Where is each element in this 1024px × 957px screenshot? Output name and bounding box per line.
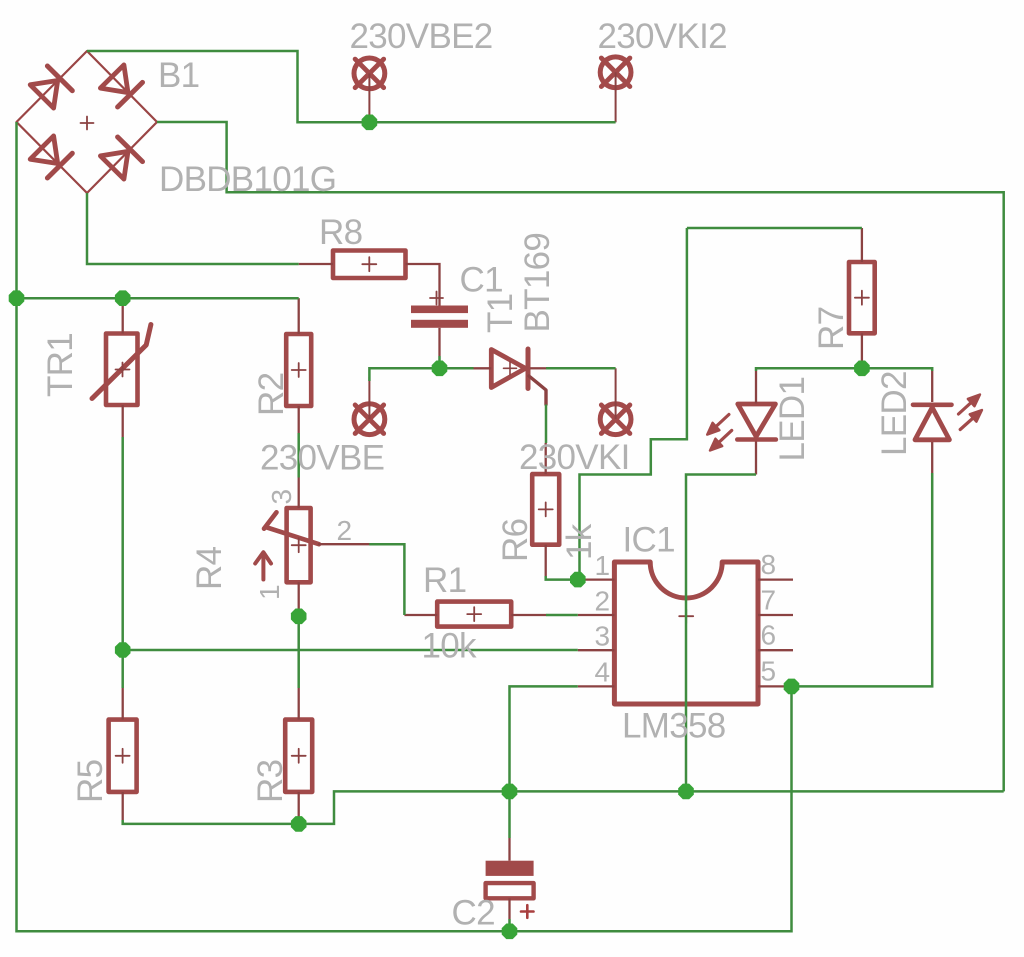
pad 230VKI — [600, 404, 631, 435]
resistor R5 — [109, 720, 137, 792]
svg-text:5: 5 — [761, 656, 777, 687]
wire R7 bottom lead — [861, 333, 863, 368]
svg-text:3: 3 — [595, 621, 611, 652]
wire R8 right lead to C1 — [406, 264, 440, 306]
node junction R3 bottom — [291, 816, 307, 832]
wire R5/R3 bottoms to right rail — [123, 791, 1004, 824]
wire IC pin1 lead — [578, 578, 615, 580]
wire bridge-bottom to R8 — [87, 193, 299, 264]
wire staircase R7 net to IC pin1 — [580, 228, 687, 580]
resistor R1 — [437, 602, 511, 627]
LED2 — [913, 395, 982, 440]
wire IC pin8 lead — [758, 578, 793, 580]
node junction C2 top — [502, 784, 518, 800]
wire pad 230VBE lead — [368, 377, 370, 419]
wire T1 gate to R6 top — [545, 405, 548, 444]
svg-text:B1: B1 — [158, 56, 199, 95]
wire LED2 anode lead — [931, 442, 933, 473]
wire R3 top lead — [298, 688, 300, 720]
svg-text:R5: R5 — [71, 760, 110, 803]
wire bridge-right to right edge down — [157, 122, 1004, 791]
node junction TR1-R5-pin3 — [115, 642, 131, 658]
bridge diamond outline — [17, 51, 158, 193]
wire C1 bottom to T1 net — [438, 356, 441, 368]
node junction C1 bottom — [432, 361, 448, 377]
svg-text:1: 1 — [595, 550, 611, 581]
svg-text:3: 3 — [266, 489, 297, 505]
wire TR1 bottom down to R5 — [121, 437, 124, 688]
resistor R6 — [532, 474, 559, 545]
wire R7 top horizontal — [687, 227, 862, 230]
wire IC pin4 lead — [578, 685, 615, 687]
node junction C2 bottom — [502, 924, 518, 940]
resistor R8 — [333, 251, 406, 279]
wire pad 230VKI lead — [615, 368, 617, 419]
origin cross of B1 — [81, 117, 94, 130]
diode D-TR of B1 — [118, 82, 143, 107]
wire R2 top lead — [298, 298, 300, 334]
wire IC pin4 down to C2 top — [510, 686, 578, 838]
resistor R7 — [849, 262, 875, 333]
svg-text:R7: R7 — [812, 307, 851, 350]
wire TR1 bottom lead — [122, 405, 124, 437]
svg-text:T1: T1 — [481, 294, 520, 333]
svg-text:R1: R1 — [423, 561, 466, 600]
wire TR1 top lead — [122, 298, 124, 333]
op-amp IC1 LM358 body — [614, 562, 758, 704]
wire bridge-left down, bottom rail, up to pin5 junction — [17, 122, 792, 931]
thyristor T1 — [491, 349, 546, 405]
wire pad 230VBE2 lead — [368, 73, 370, 122]
wire C2 top lead — [508, 838, 510, 861]
svg-text:R6: R6 — [496, 519, 535, 562]
wire R8 left lead — [299, 263, 333, 265]
node junction IC pin5 — [784, 679, 800, 695]
node junction IC pin1 — [570, 572, 586, 588]
node junction R4 pin1 — [291, 609, 307, 625]
wire IC pin3 lead — [578, 649, 615, 651]
svg-text:2: 2 — [595, 586, 611, 617]
wire LED2 bottom to IC pin5 — [792, 473, 933, 686]
wire R4 pin1 lead — [298, 582, 300, 612]
wire R4 pin3 lead — [298, 478, 300, 509]
svg-text:LM358: LM358 — [622, 707, 726, 746]
wire T1 cathode to 230VKI elbow — [546, 367, 616, 370]
svg-text:230VKI: 230VKI — [519, 438, 630, 477]
node junction 230VBE2-wire — [362, 115, 378, 131]
diode D-TL of B1 — [47, 66, 72, 91]
svg-text:IC1: IC1 — [623, 521, 675, 560]
wire IC pin5 lead — [758, 685, 792, 687]
wire R1 left lead — [404, 614, 437, 616]
wire R2 bottom to R4 top — [297, 433, 300, 478]
svg-text:R3: R3 — [251, 760, 290, 803]
wire R1 right to IC pin2 — [546, 614, 578, 617]
wire LED1 anode lead — [755, 371, 757, 404]
wire 230VBE elbow to T1 anode — [369, 368, 473, 381]
wire R6 bottom to IC pin1 — [546, 576, 578, 580]
wire LED anodes horizontal — [756, 368, 932, 371]
pad 230VBE — [354, 404, 385, 435]
wire R5 bottom lead — [122, 792, 124, 820]
svg-text:LED1: LED1 — [773, 377, 812, 462]
wire C2 bottom to bottom rail — [508, 919, 511, 931]
potentiometer R4 — [255, 508, 369, 582]
wire C1 bottom lead — [438, 328, 440, 356]
svg-text:10k: 10k — [422, 627, 478, 666]
svg-text:R8: R8 — [319, 213, 362, 252]
wire R2 bottom lead — [298, 406, 300, 433]
wire R6 top lead — [545, 443, 547, 474]
thermistor TR1 — [92, 325, 151, 406]
node junction left-rail/R2-wire — [9, 290, 25, 306]
svg-text:R2: R2 — [252, 373, 291, 416]
svg-text:2: 2 — [337, 515, 353, 546]
wire R4 bottom to R3 top — [297, 612, 300, 688]
wire R3 bottom lead — [298, 792, 300, 820]
wire LED2 cathode lead — [931, 371, 933, 402]
wire T1 cathode lead — [530, 367, 546, 369]
resistor R3 — [285, 720, 312, 792]
svg-text:230VKI2: 230VKI2 — [598, 17, 727, 56]
node junction R7 bottom — [854, 361, 870, 377]
svg-text:230VBE2: 230VBE2 — [350, 17, 493, 56]
svg-text:TR1: TR1 — [41, 333, 80, 397]
wire pad 230VKI2 lead — [615, 72, 617, 122]
svg-text:230VBE: 230VBE — [260, 439, 384, 478]
node junction LED1-net bottom — [678, 784, 694, 800]
svg-text:6: 6 — [761, 620, 777, 651]
wire IC pin6 lead — [758, 649, 793, 651]
wire TR1/R5 node to IC pin3 — [123, 649, 578, 652]
bridge rectifier B1 — [17, 51, 158, 193]
svg-text:DBDB101G: DBDB101G — [159, 160, 336, 199]
wire R1 right lead — [511, 614, 546, 616]
svg-text:4: 4 — [595, 657, 611, 688]
wire R4 wiper to R1 left — [369, 544, 404, 615]
svg-text:R4: R4 — [190, 546, 229, 590]
wire C2 bottom lead — [508, 898, 510, 919]
pad 230VBE2 — [354, 58, 385, 89]
resistor R2 — [286, 334, 311, 406]
svg-text:C2: C2 — [452, 894, 495, 933]
svg-text:BT169: BT169 — [518, 233, 557, 333]
svg-text:1k: 1k — [560, 523, 599, 560]
wire T1 anode lead — [474, 367, 492, 369]
wire R7 top lead — [861, 228, 863, 262]
wire IC pin2 lead — [578, 614, 615, 616]
svg-text:1: 1 — [254, 584, 285, 600]
svg-text:8: 8 — [761, 549, 777, 580]
LED1 — [707, 404, 776, 451]
wire IC pin7 lead — [758, 614, 793, 616]
wire LED1 cathode lead — [755, 442, 757, 475]
wire LED1 cathode through IC to bottom — [686, 475, 756, 792]
pad 230VKI2 — [600, 57, 631, 88]
diode D-BL of B1 — [47, 153, 72, 178]
diode D-BR of B1 — [118, 137, 143, 162]
svg-text:7: 7 — [761, 585, 777, 616]
node junction TR1 top — [115, 290, 131, 306]
wire R6 bottom lead — [545, 545, 547, 576]
capacitor C2 polarized — [486, 861, 534, 918]
svg-text:LED2: LED2 — [875, 371, 914, 456]
capacitor C1 — [411, 292, 468, 328]
wire left rail to R2 top — [17, 297, 299, 300]
wire bridge-top to pads net — [87, 51, 616, 122]
wire R5 top lead — [122, 688, 124, 720]
